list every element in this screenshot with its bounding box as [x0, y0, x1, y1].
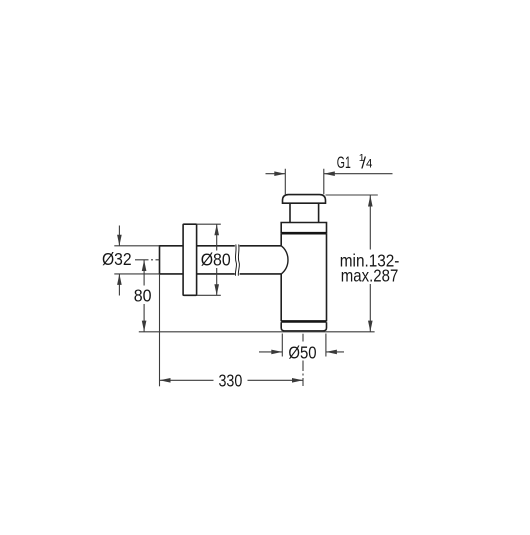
svg-text:4: 4: [366, 159, 373, 171]
pipe break line right: [238, 244, 239, 275]
330 arrow right (points right): [292, 378, 303, 383]
body top nut band: [281, 223, 326, 234]
svg-text:330: 330: [219, 371, 243, 391]
80 arrow top (points up): [142, 260, 147, 271]
min/max dimension line: [369, 196, 371, 332]
G1 1/4 arrow right (points left): [324, 171, 335, 176]
inlet neck: [290, 203, 319, 222]
Ø50 arrow left (points right): [271, 350, 282, 355]
pipe centerline: [135, 259, 160, 261]
Ø50 dimension line right tail: [326, 351, 344, 353]
body centerline below trap: [302, 334, 304, 386]
svg-text:Ø32: Ø32: [102, 249, 132, 269]
pipe break line left: [235, 244, 236, 275]
thick joint line under top nut: [281, 232, 326, 235]
Ø50 extension line left: [281, 334, 283, 357]
G1 1/4 extension lines above flange: [285, 169, 324, 194]
svg-text:Ø50: Ø50: [288, 342, 316, 362]
horizontal pipe bottom edge: [160, 273, 282, 275]
trap body sides: [281, 233, 326, 321]
Ø50 arrow right (points left): [326, 350, 337, 355]
bottom cap: [281, 322, 326, 331]
min/max arrow top (points up): [368, 196, 373, 207]
min/max top extension line: [326, 194, 378, 196]
Ø80 arrow bottom (points down): [214, 284, 219, 295]
svg-text:80: 80: [134, 286, 152, 306]
80 arrow bottom (points down): [142, 321, 147, 332]
Ø80 arrow top (points up): [214, 224, 219, 235]
thick joint line above bottom cap: [281, 320, 326, 323]
Ø50 dimension line left tail: [259, 351, 282, 353]
Ø32 dimension line upper: [118, 226, 120, 246]
Ø80 dimension line: [216, 224, 218, 295]
330 left extension line (wall line): [159, 275, 161, 387]
Ø80 extension line bottom: [197, 294, 221, 296]
svg-text:G1: G1: [337, 154, 351, 172]
bottom reference line: [139, 331, 375, 333]
pipe left end: [159, 245, 161, 275]
Ø80 extension line top (flange top edge extended): [197, 223, 221, 225]
Ø32 arrow bottom (points up): [117, 274, 122, 285]
G1 1/4 arrow left (points right): [274, 171, 285, 176]
svg-text:max.287: max.287: [341, 266, 399, 286]
min/max arrow bottom (points down): [368, 321, 373, 332]
Ø32 arrow top (points down): [117, 235, 122, 246]
svg-text:Ø80: Ø80: [201, 249, 231, 269]
inlet flange top nut G1 1/4: [283, 195, 326, 204]
330 dimension line: [160, 379, 304, 381]
Ø50 extension line right: [325, 334, 327, 357]
G1 1/4 dimension line: [266, 173, 393, 175]
80 dimension line: [143, 260, 145, 332]
wall escutcheon flange: [183, 224, 197, 295]
pipe bottom edge extension to Ø32: [114, 273, 159, 275]
330 arrow left (points left): [160, 378, 171, 383]
Ø32 dimension line lower: [118, 274, 120, 296]
horizontal pipe top edge: [160, 245, 282, 247]
pipe top edge extension to Ø32: [114, 245, 159, 247]
pipe dome end inside body: [281, 246, 288, 274]
white background boxes under texts: [198, 251, 234, 269]
